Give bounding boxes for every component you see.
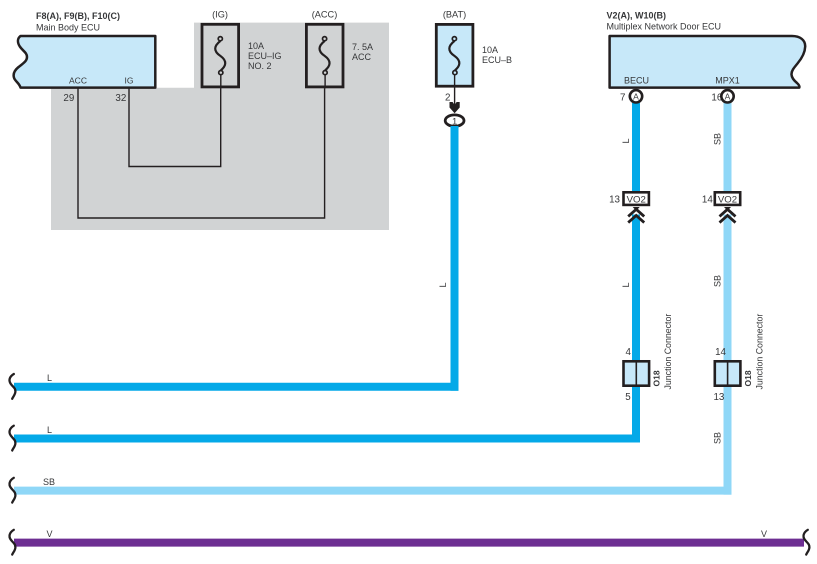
svg-text:Main Body ECU: Main Body ECU — [36, 22, 100, 32]
fuse (BAT) — [436, 9, 512, 86]
svg-text:13: 13 — [713, 392, 724, 403]
Main Body ECU title — [36, 11, 120, 32]
svg-text:14: 14 — [702, 194, 713, 205]
svg-text:L: L — [621, 138, 631, 143]
svg-text:L: L — [438, 282, 448, 287]
svg-text:7: 7 — [620, 93, 625, 104]
wire fuse BAT to node 1 — [454, 75, 456, 106]
wire V horizontal row 4 — [14, 539, 804, 547]
svg-text:(ACC): (ACC) — [312, 9, 338, 19]
wire SB from MPX1 (vertical) — [724, 103, 732, 192]
break symbol row 2 — [10, 426, 16, 451]
svg-text:32: 32 — [115, 93, 126, 104]
svg-text:L: L — [47, 425, 52, 435]
svg-text:VO2: VO2 — [718, 195, 737, 206]
svg-text:Junction Connector: Junction Connector — [663, 314, 673, 390]
svg-text:4: 4 — [626, 347, 632, 358]
break symbol row 4 right — [804, 530, 810, 555]
fuse (ACC) — [306, 9, 373, 88]
svg-text:SB: SB — [713, 275, 723, 287]
svg-text:Junction Connector: Junction Connector — [754, 314, 764, 390]
svg-text:13: 13 — [609, 194, 620, 205]
svg-text:7. 5A: 7. 5A — [352, 42, 373, 52]
svg-text:2: 2 — [445, 92, 450, 103]
svg-text:ECU–IG: ECU–IG — [248, 51, 282, 61]
svg-text:BECU: BECU — [624, 75, 649, 85]
wire L horizontal row 1 — [14, 383, 459, 391]
svg-text:V: V — [761, 529, 767, 539]
node 1 — [445, 115, 464, 127]
svg-text:10A: 10A — [248, 41, 264, 51]
break symbol row 3 — [10, 478, 16, 503]
wire L from node 1 (vertical) — [451, 126, 459, 391]
svg-text:14: 14 — [715, 347, 726, 358]
break symbol row 4 left — [10, 530, 16, 555]
wire L from BECU (vertical) — [632, 103, 640, 192]
svg-text:29: 29 — [63, 93, 74, 104]
svg-text:O18: O18 — [743, 370, 753, 386]
svg-text:A: A — [633, 92, 639, 102]
pin 16 circle A — [711, 90, 733, 103]
svg-text:V: V — [46, 529, 52, 539]
svg-text:ACC: ACC — [69, 76, 87, 86]
svg-text:(BAT): (BAT) — [443, 9, 466, 19]
svg-text:SB: SB — [713, 133, 723, 145]
svg-text:MPX1: MPX1 — [715, 75, 740, 85]
svg-text:ECU–B: ECU–B — [482, 55, 512, 65]
svg-text:F8(A), F9(B), F10(C): F8(A), F9(B), F10(C) — [36, 11, 120, 21]
svg-text:V2(A), W10(B): V2(A), W10(B) — [607, 10, 667, 20]
svg-text:1: 1 — [452, 116, 457, 127]
pin 7 circle A — [620, 90, 642, 103]
connector VO2 pin 14 — [702, 192, 740, 222]
svg-text:A: A — [725, 92, 731, 102]
connector Main Body ECU — [14, 36, 156, 88]
svg-text:L: L — [621, 282, 631, 287]
wire L from BECU below VO2 (vertical) — [632, 215, 640, 443]
connector Multiplex Network Door ECU — [610, 36, 806, 88]
fuse (IG) — [202, 9, 282, 88]
svg-text:IG: IG — [125, 76, 134, 86]
svg-text:O18: O18 — [652, 370, 662, 386]
wire SB horizontal row 3 — [14, 487, 732, 495]
svg-text:NO. 2: NO. 2 — [248, 61, 272, 71]
wire IG pin 32 to fuse (IG) — [129, 88, 221, 167]
wire SB from MPX1 below VO2 (vertical) — [724, 215, 732, 495]
junction connector O18 pins 4/5 — [624, 314, 674, 404]
connector VO2 pin 13 — [609, 192, 649, 222]
wire ACC pin 29 to fuse (ACC) — [78, 88, 325, 218]
svg-text:SB: SB — [713, 432, 723, 444]
break symbol row 1 — [10, 374, 16, 399]
junction connector O18 pins 14/13 — [713, 314, 764, 404]
Multiplex Network Door ECU title — [607, 10, 722, 31]
svg-text:10A: 10A — [482, 45, 498, 55]
wire L horizontal row 2 — [14, 435, 640, 443]
gray background panel — [51, 23, 389, 230]
svg-text:SB: SB — [43, 477, 55, 487]
arrow to node 1 — [450, 102, 460, 113]
svg-text:ACC: ACC — [352, 52, 372, 62]
svg-text:VO2: VO2 — [627, 195, 646, 206]
svg-text:Multiplex Network Door ECU: Multiplex Network Door ECU — [607, 21, 722, 31]
svg-text:5: 5 — [625, 392, 631, 403]
svg-text:(IG): (IG) — [212, 9, 228, 19]
svg-text:L: L — [47, 373, 52, 383]
